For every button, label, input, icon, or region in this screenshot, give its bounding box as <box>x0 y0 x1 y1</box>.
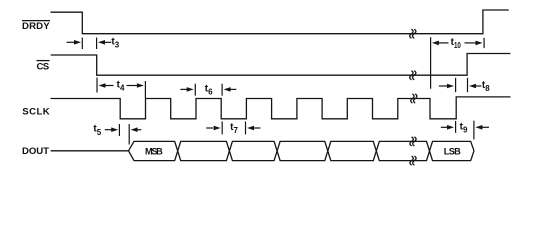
wire DOUT bus lower zigzag <box>129 141 475 160</box>
annotation t8 between SCLK rise and CS rise <box>439 78 482 92</box>
wire DRDY waveform <box>51 10 509 34</box>
break marks on DRDY low line <box>410 29 416 38</box>
svg-text:SCLK: SCLK <box>22 106 49 117</box>
break marks on SCLK high line <box>411 94 417 103</box>
signal label CS (overlined) <box>37 60 50 62</box>
svg-text:MSB: MSB <box>145 147 163 157</box>
svg-text:DOUT: DOUT <box>22 146 49 157</box>
signal label DRDY (overlined) <box>22 20 50 22</box>
svg-text:DRDY: DRDY <box>22 21 50 32</box>
wire CS waveform <box>51 54 511 76</box>
annotation t4 between CS fall and SCLK rise <box>97 78 145 99</box>
wire DOUT bus upper zigzag <box>129 141 475 160</box>
wire SCLK waveform <box>51 97 511 119</box>
annotation t9 between SCLK rise and DOUT invalid <box>441 121 489 140</box>
break marks on CS low line <box>410 71 416 80</box>
svg-text:LSB: LSB <box>444 147 461 157</box>
annotation t5 between SCLK fall and DOUT valid <box>105 124 142 145</box>
break marks on DOUT bus bottom line <box>410 156 416 165</box>
wire DOUT lead line <box>51 150 129 152</box>
break marks on DOUT bus top line <box>410 137 416 146</box>
svg-text:CS: CS <box>37 62 50 73</box>
annotation t10 between SCLK fall and DRDY rise <box>431 37 485 88</box>
annotation t7 SCLK low time <box>206 122 260 135</box>
annotation t6 SCLK high time <box>180 84 236 96</box>
annotation t3 between DRDY fall and CS fall <box>67 38 112 50</box>
